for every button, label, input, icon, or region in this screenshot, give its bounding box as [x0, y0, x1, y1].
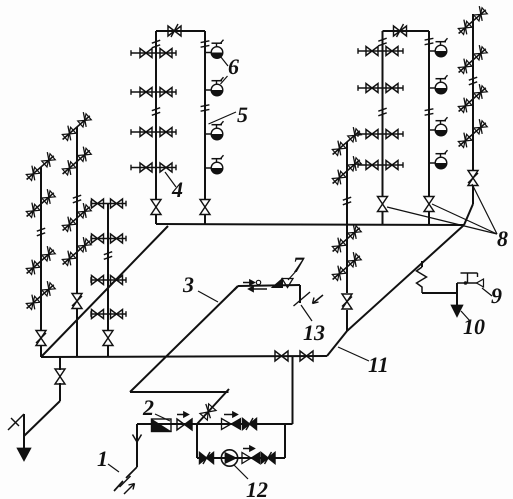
label 8: [497, 226, 508, 251]
svg-text:12: 12: [246, 477, 268, 499]
pipe break right riser b lower: [425, 109, 434, 115]
radiator branch crossing R4 fl3: [456, 84, 488, 115]
air-vent radiator on riser 5 floor 4: [205, 155, 224, 174]
wire: left building supply riser 4 (x=156): [155, 31, 157, 200]
wire: supply diagonal D2: [130, 286, 238, 392]
air-vent radiator 6a: [205, 40, 224, 59]
label 4: [171, 177, 183, 202]
valve after check bottom: [261, 452, 275, 464]
valve on H2 left: [275, 351, 288, 361]
radiator branch crossing L1 fl4: [24, 281, 56, 312]
valve at bottom of riser L1: [36, 331, 46, 358]
label 7: [293, 252, 305, 277]
radiator branch crossing L2 fl4: [60, 237, 92, 268]
wire: bypass left drop: [196, 424, 198, 458]
wire: branch from D3 with compensator: [417, 261, 458, 293]
wire: supply inlet diagonal 1: [114, 467, 137, 491]
label 11: [368, 352, 389, 377]
valve on left drain: [55, 369, 65, 384]
valve at bottom of riser 4: [151, 200, 161, 225]
branch with valves, left riser floor 2: [131, 88, 176, 97]
wire: perspective riser L2 (x=77): [76, 127, 78, 357]
filter 2: [152, 419, 172, 432]
svg-text:1: 1: [97, 446, 108, 471]
pipe break on riser 4 upper: [152, 40, 160, 48]
branch with valves, riser L3 fl2: [91, 234, 126, 243]
pipe break on riser L2: [73, 195, 81, 203]
pipe continuation mark left drain: [8, 414, 24, 430]
valve on riser R3: [342, 294, 352, 309]
label 3: [182, 272, 194, 297]
flow arrow before valve: [177, 412, 189, 418]
air-vent radiator right floor 4: [429, 150, 448, 169]
wire: drop from H2 to mixing unit: [292, 356, 294, 424]
wire: bypass bottom branch: [197, 457, 285, 459]
wire: bypass top branch: [197, 423, 293, 425]
wire: link riser R4 to main: [464, 204, 473, 225]
flow arrow left under H3: [248, 286, 267, 292]
flow arrow on inlet: [124, 484, 135, 495]
svg-text:11: 11: [368, 352, 389, 377]
svg-text:2: 2: [142, 395, 154, 420]
label 7 leader: [288, 270, 297, 280]
wire: D3 diagonal to right building: [327, 225, 464, 356]
radiator branch crossing R3 fl3: [330, 224, 362, 255]
label 4 leader: [165, 172, 176, 187]
svg-text:7: 7: [293, 252, 305, 277]
radiator branch crossing L1 fl2: [24, 189, 56, 220]
branch with valves, right riser floor 4: [358, 161, 403, 170]
pipe break on riser L3: [104, 252, 112, 260]
label 8 leader a: [387, 207, 497, 234]
label 12: [246, 477, 268, 499]
label 10: [463, 314, 485, 339]
wire: middle riser L3 (x=108): [107, 204, 109, 331]
wire: supply header H3: [234, 285, 300, 290]
valve on riser R4: [468, 171, 478, 186]
label 11 leader: [338, 347, 369, 361]
pipe break on riser 5 lower: [201, 105, 210, 111]
label 6 leader a: [221, 57, 229, 67]
wire: upper return main H1: [156, 224, 464, 225]
pipe break right riser b upper: [425, 38, 434, 44]
check valve bottom branch: [242, 453, 260, 464]
wire: bypass right rise: [284, 424, 286, 458]
label 6: [228, 54, 239, 79]
radiator branch crossing R3 fl4: [330, 252, 362, 283]
branch with valves, right riser floor 2: [358, 84, 403, 93]
label 8 leader c: [472, 184, 497, 234]
flow arrow top branch: [224, 412, 238, 418]
svg-text:5: 5: [237, 102, 248, 127]
flow arrow bottom branch: [243, 446, 255, 452]
air-vent radiator right floor 1: [429, 38, 448, 57]
wire: inlet vertical: [136, 424, 138, 467]
wire: left building return riser 5 (x=205): [204, 31, 206, 200]
valve at bottom of right supply riser: [378, 197, 388, 226]
branch with valves, left riser floor 3: [131, 128, 176, 137]
radiator branch crossing L2 fl1: [60, 112, 92, 143]
wire: tee up to tap 9: [456, 283, 458, 293]
flow arrow down on inlet: [133, 435, 142, 443]
label 1: [97, 446, 108, 471]
pipe break right riser a upper: [378, 38, 386, 46]
label 2: [142, 395, 154, 420]
wire: drain vertical: [23, 414, 25, 448]
drain arrow 10: [451, 305, 463, 317]
wire: perspective riser R3 (x=347): [346, 142, 348, 331]
pipe cut slash at 13: [294, 292, 311, 306]
label 5: [237, 102, 248, 127]
wire: perspective riser R4 (x=473): [472, 14, 474, 204]
valve at top of left building riser pair: [156, 24, 205, 37]
svg-text:4: 4: [171, 177, 183, 202]
svg-text:8: 8: [497, 226, 508, 251]
pipe break on riser 5 upper: [201, 41, 210, 47]
radiator branch crossing R4 fl2: [456, 45, 488, 76]
branch with valves, right riser floor 3: [358, 130, 403, 139]
pipe cut slash on inlet: [120, 476, 131, 487]
label 5 leader: [209, 112, 237, 124]
branch with valves, left riser floor 4 (label 4): [131, 163, 176, 172]
valve at bottom of riser L3: [103, 331, 113, 358]
air-vent radiator 6b: [205, 77, 224, 96]
radiator branch crossing L1 fl3: [24, 246, 56, 277]
label 13: [303, 320, 325, 345]
branch with valves, left riser floor 1: [131, 49, 176, 58]
flow arrow right on H3: [243, 280, 261, 286]
valve at bottom of right return riser: [424, 197, 434, 226]
wire: right building supply riser (x=382): [382, 31, 384, 197]
label 9: [491, 283, 502, 308]
wire: H3 end drop: [299, 285, 301, 303]
wire: perspective edge D1: [41, 226, 168, 357]
pump 12: [221, 450, 237, 466]
label 8 leader b: [432, 204, 497, 234]
wire: riser to D2 with valve: [197, 389, 229, 424]
branch with valves, riser L3 fl3: [91, 276, 126, 285]
pipe break on riser 4 lower: [152, 108, 160, 116]
air-vent radiator right floor 3: [429, 117, 448, 136]
wire: supply main to filter: [137, 423, 197, 425]
svg-text:10: 10: [463, 314, 485, 339]
air-vent radiator right floor 2: [429, 75, 448, 94]
label 13 leader: [301, 305, 312, 321]
radiator branch crossing R3 fl2: [330, 156, 362, 187]
svg-text:9: 9: [491, 283, 502, 308]
svg-text:13: 13: [303, 320, 325, 345]
drain arrow left: [17, 448, 31, 461]
svg-text:3: 3: [182, 272, 194, 297]
label 2 leader: [155, 414, 170, 421]
valve on top branch: [243, 418, 257, 430]
valve at top of right building riser pair: [383, 24, 430, 37]
check valve 7: [272, 279, 293, 288]
radiator branch crossing L2 fl2: [60, 146, 92, 177]
label 10 leader: [461, 311, 470, 321]
wire: lower supply horizontal: [130, 391, 229, 393]
valve at bottom of riser 5: [200, 200, 210, 226]
radiator branch crossing R4 fl4: [456, 119, 488, 150]
branch with valves, riser L3 fl4: [91, 310, 126, 319]
wire: drain diagonal: [24, 383, 60, 436]
svg-text:6: 6: [228, 54, 239, 79]
label 6 leader b: [221, 76, 228, 84]
check valve on top branch: [222, 419, 241, 430]
label 12 leader: [234, 465, 248, 479]
valve before pump: [200, 452, 214, 464]
label 1 leader: [108, 464, 119, 472]
radiator branch crossing L2 fl3: [60, 203, 92, 234]
tap 9: [457, 273, 484, 287]
wire: right building return riser (x=429): [428, 31, 430, 197]
radiator branch crossing R4 fl1: [456, 6, 488, 37]
valve after filter: [177, 419, 192, 430]
wire: lower main H2: [41, 356, 327, 357]
valve on riser L2: [72, 294, 82, 309]
air-vent radiator on riser 5 floor 3: [205, 121, 224, 140]
radiator branch crossing R3 fl1: [330, 127, 362, 158]
pipe break on riser R3: [343, 197, 351, 205]
branch with valves, right riser floor 1: [358, 47, 403, 56]
wire: perspective riser L1 (x=41): [40, 167, 42, 330]
pipe break right riser a lower: [378, 108, 386, 116]
label 9 leader: [482, 288, 492, 296]
pipe break on riser L1: [37, 228, 45, 236]
valve on H2 right: [300, 351, 313, 361]
pipe break on riser R4: [469, 77, 477, 85]
label 3 leader: [198, 291, 218, 302]
wire: tee down to drain 10: [456, 293, 458, 305]
radiator branch crossing L1 fl1: [24, 152, 56, 183]
flow arrow into 13: [313, 295, 324, 304]
wire: drop from H2 to left drain: [59, 357, 61, 370]
branch with valves, riser L3 fl1: [91, 199, 126, 208]
